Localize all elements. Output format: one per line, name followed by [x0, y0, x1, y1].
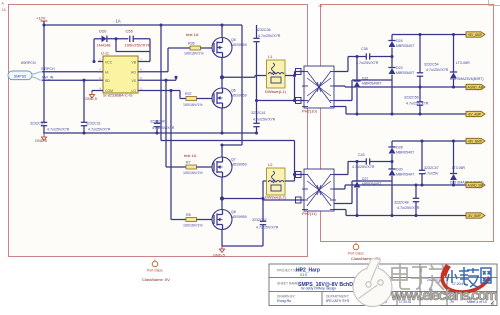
svg-text:SI 8233BBA-C-IS: SI 8233BBA-C-IS	[103, 94, 133, 98]
svg-text:D28: D28	[396, 146, 403, 150]
svg-text:3232C34: 3232C34	[150, 120, 165, 124]
svg-text:1A: 1A	[318, 4, 323, 8]
svg-text:4.7u/25V/X7R: 4.7u/25V/X7R	[47, 128, 70, 132]
svg-text:MBR0540T: MBR0540T	[396, 151, 415, 155]
svg-text:VCC: VCC	[105, 60, 113, 64]
svg-text:Q7: Q7	[231, 158, 236, 162]
svg-text:· 1A: · 1A	[113, 19, 121, 24]
svg-text:Rong Ru: Rong Ru	[277, 299, 291, 303]
svg-text:100/16V/1%: 100/16V/1%	[183, 103, 203, 107]
svg-text:D30: D30	[396, 168, 403, 172]
svg-text:R8: R8	[186, 213, 191, 217]
svg-text:PW_IN: PW_IN	[42, 76, 54, 80]
svg-text:R36: R36	[188, 42, 195, 46]
svg-text:AGND_BM: AGND_BM	[468, 184, 484, 188]
svg-text:1A: 1A	[2, 8, 7, 12]
svg-text:U-11: U-11	[101, 52, 109, 56]
svg-text:MBR0540BT: MBR0540BT	[362, 182, 381, 186]
svg-text:DWswe(L2): DWswe(L2)	[265, 194, 287, 199]
svg-text:-8V_AMP: -8V_AMP	[468, 113, 482, 117]
svg-text:4.7u/25V: 4.7u/25V	[424, 172, 439, 176]
svg-text:PH2(11): PH2(11)	[302, 211, 317, 216]
svg-text:LT3-06R: LT3-06R	[452, 166, 465, 170]
svg-text:V1.0: V1.0	[300, 273, 307, 277]
svg-text:SHEET NAME:: SHEET NAME:	[277, 282, 299, 286]
svg-text:C38: C38	[361, 47, 368, 51]
svg-text:Q5: Q5	[231, 38, 236, 42]
svg-text:3232C54: 3232C54	[424, 63, 439, 67]
svg-text:R37: R37	[185, 92, 192, 96]
svg-text:4.7u/25V/X7R: 4.7u/25V/X7R	[256, 226, 279, 230]
svg-text:100n/25V/X7R: 100n/25V/X7R	[125, 43, 151, 48]
svg-text:1N4148: 1N4148	[97, 43, 112, 48]
svg-text:4.7u/25V/X7R: 4.7u/25V/X7R	[397, 206, 420, 210]
svg-text:4.7u/25V/X7R: 4.7u/25V/X7R	[426, 68, 449, 72]
svg-text:4.7u/25V/X7R: 4.7u/25V/X7R	[152, 126, 175, 130]
svg-text:D20: D20	[99, 29, 107, 34]
svg-text:www.elecfans.com: www.elecfans.com	[390, 288, 498, 304]
svg-text:L2: L2	[268, 162, 273, 167]
svg-text:D23: D23	[396, 66, 403, 70]
svg-text:MBR0540T: MBR0540T	[396, 71, 415, 75]
svg-text:+8V_BMP: +8V_BMP	[468, 140, 482, 144]
svg-text:PH2(10): PH2(10)	[302, 109, 318, 114]
svg-text:4.7u/25V/X7R: 4.7u/25V/X7R	[258, 34, 281, 38]
svg-text:100/16V/1%: 100/16V/1%	[183, 171, 203, 175]
svg-text:Port Class: Port Class	[147, 269, 163, 273]
svg-text:3232C47: 3232C47	[424, 166, 439, 170]
svg-text:D25 SMAZ5V6(B0RT): D25 SMAZ5V6(B0RT)	[450, 77, 483, 81]
svg-text:4.7u/25V/X7R: 4.7u/25V/X7R	[88, 128, 111, 132]
svg-text:3232C52: 3232C52	[252, 218, 267, 222]
svg-text:C43: C43	[358, 153, 365, 157]
svg-text:-8V_BMP: -8V_BMP	[468, 214, 482, 218]
svg-text:HI: HI	[105, 71, 108, 75]
svg-text:VS: VS	[131, 79, 136, 83]
svg-text:AGND_AM: AGND_AM	[468, 86, 484, 90]
svg-text:3232C48: 3232C48	[394, 201, 409, 205]
svg-text:6SRPCN: 6SRPCN	[21, 61, 36, 65]
svg-text:GND-5: GND-5	[35, 139, 47, 143]
svg-text:4.7u/25V/X7R: 4.7u/25V/X7R	[406, 102, 429, 106]
svg-text:D27: D27	[362, 177, 368, 181]
svg-text:4.7u/25V/X7R: 4.7u/25V/X7R	[352, 165, 375, 169]
svg-text:test 1A: test 1A	[184, 153, 197, 158]
svg-text:C55: C55	[126, 29, 134, 34]
svg-text:MBR0540BT: MBR0540BT	[362, 81, 381, 85]
svg-text:MBR0540T: MBR0540T	[396, 173, 415, 177]
svg-text:COM: COM	[105, 89, 113, 93]
svg-text:SIRPCH: SIRPCH	[41, 67, 55, 71]
svg-text:LT3-06R: LT3-06R	[456, 61, 470, 65]
svg-text:+12V: +12V	[36, 16, 46, 21]
svg-text:3232C36: 3232C36	[256, 28, 271, 32]
svg-text:3232C41: 3232C41	[251, 111, 266, 115]
svg-text:MBR0540T: MBR0540T	[396, 44, 415, 48]
svg-text:D22: D22	[362, 77, 368, 81]
svg-text:100/16V/1%: 100/16V/1%	[183, 224, 203, 228]
svg-text:3232C31: 3232C31	[86, 122, 101, 126]
svg-text:D24: D24	[396, 39, 403, 43]
svg-text:+8V_AMP: +8V_AMP	[468, 33, 482, 37]
svg-text:NDS9959: NDS9959	[231, 43, 247, 47]
svg-text:LO: LO	[131, 89, 136, 93]
svg-text:GND-5: GND-5	[85, 97, 97, 101]
svg-text:Q6: Q6	[231, 89, 236, 93]
svg-text:4.7u/25V/X7R: 4.7u/25V/X7R	[356, 61, 379, 65]
svg-text:SD: SD	[105, 79, 110, 83]
svg-text:4.7u/25V/X7R: 4.7u/25V/X7R	[253, 118, 276, 122]
svg-text:3232C30: 3232C30	[30, 122, 45, 126]
svg-text:VB: VB	[131, 60, 136, 64]
svg-text:L1: L1	[268, 54, 273, 59]
svg-text:IPEJ ATV SYS: IPEJ ATV SYS	[326, 299, 350, 303]
svg-text:GND-5: GND-5	[213, 254, 225, 258]
svg-text:3232C56: 3232C56	[404, 96, 419, 100]
svg-text:NDS9959: NDS9959	[231, 163, 247, 167]
svg-text:SMPS5: SMPS5	[14, 75, 26, 79]
svg-text:Q8: Q8	[231, 210, 236, 214]
svg-text:DWswe(L1): DWswe(L1)	[265, 89, 287, 94]
svg-text:HO: HO	[131, 71, 136, 75]
svg-text:R7: R7	[186, 161, 191, 165]
svg-text:test 1A: test 1A	[186, 32, 199, 37]
svg-text:ClassName: 5V: ClassName: 5V	[142, 277, 170, 282]
svg-text:NDS9959: NDS9959	[231, 94, 247, 98]
svg-text:NDS9959: NDS9959	[231, 215, 247, 219]
svg-text:for dobly OPAmp diesign: for dobly OPAmp diesign	[301, 287, 336, 291]
svg-text:100/16V/1%: 100/16V/1%	[184, 52, 204, 56]
